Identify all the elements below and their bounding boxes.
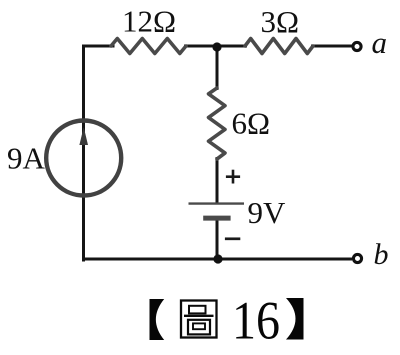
caption character tu top small box — [189, 306, 206, 314]
battery minus sign — [225, 237, 240, 240]
resistor 3-ohm (zigzag) — [245, 39, 313, 54]
caption character tu bottom box — [188, 320, 210, 335]
svg-text:3Ω: 3Ω — [261, 4, 300, 39]
wire 6-ohm resistor to battery top plate — [216, 157, 219, 203]
caption character tu inner small box — [193, 323, 205, 329]
battery V1 long plate (positive) — [189, 202, 245, 204]
wire top segment left (corner to 12-ohm resistor) — [84, 46, 114, 260]
wire top segment right (3-ohm to terminal a) — [311, 45, 352, 48]
svg-text:a: a — [372, 25, 388, 60]
terminal b (open circle) — [353, 254, 361, 262]
current source I1 circle — [46, 121, 121, 196]
wire battery bottom plate to bottom rail — [216, 218, 219, 259]
resistor 12-ohm (zigzag) — [111, 39, 186, 54]
svg-text:16: 16 — [232, 291, 280, 351]
resistor 6-ohm (vertical zigzag) — [209, 88, 226, 159]
node dot bottom (junction at bottom rail) — [213, 254, 222, 263]
battery V1 short plate (negative) — [203, 216, 230, 221]
svg-text:9A: 9A — [7, 141, 46, 176]
caption left lens bracket — [150, 299, 165, 340]
terminal a (open circle) — [353, 42, 361, 50]
wire top segment middle (12-ohm to 3-ohm through node) — [184, 45, 247, 48]
wire bottom rail — [83, 258, 353, 261]
svg-text:9V: 9V — [248, 195, 287, 230]
svg-text:b: b — [374, 238, 389, 271]
node dot top (junction of 12-ohm, 3-ohm, 6-ohm) — [212, 42, 221, 51]
caption character tu middle bar — [184, 315, 214, 317]
svg-text:6Ω: 6Ω — [232, 106, 271, 141]
battery plus sign — [226, 170, 240, 184]
caption right lens bracket — [286, 298, 304, 340]
caption character tu (figure) outer box — [181, 301, 217, 338]
current source arrowhead — [79, 127, 88, 145]
wire middle vertical (node to 6-ohm resistor) — [216, 46, 219, 90]
svg-text:12Ω: 12Ω — [122, 4, 176, 39]
